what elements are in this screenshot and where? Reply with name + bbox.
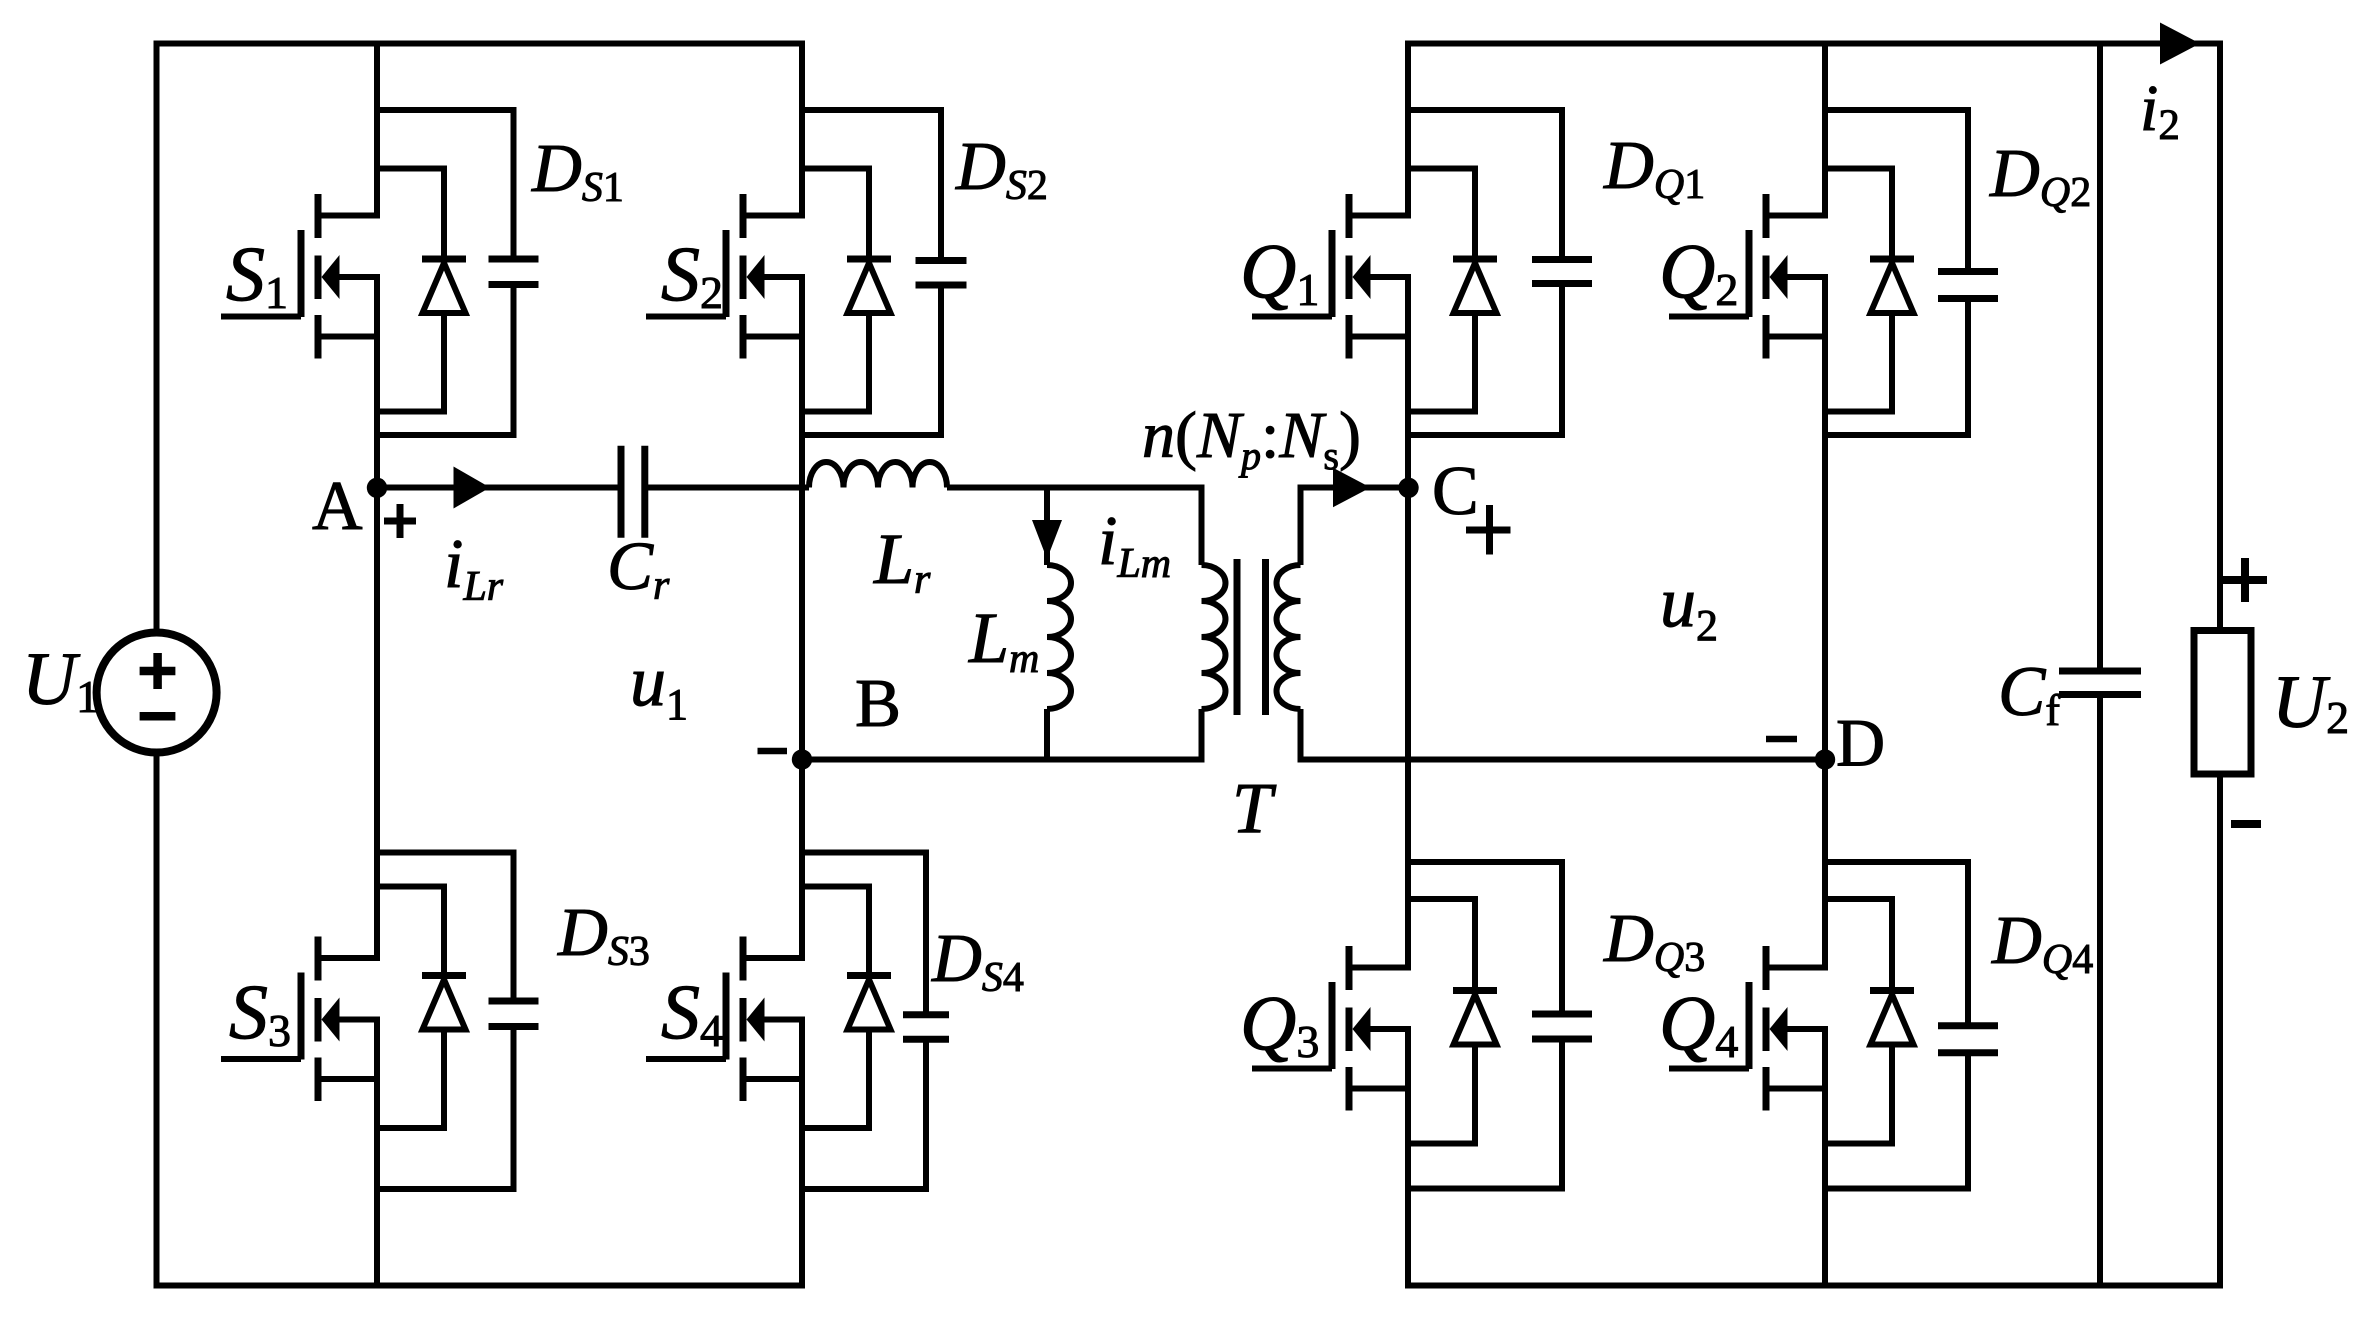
svg-text:Lr: Lr: [873, 519, 931, 603]
plus sign at node A (u1 +): [384, 504, 416, 538]
svg-text:Q4: Q4: [1659, 979, 1738, 1067]
svg-text:B: B: [855, 665, 901, 741]
node C: [1398, 478, 1418, 498]
svg-text:T: T: [1232, 768, 1277, 848]
top rail right (secondary bridge): [1405, 41, 2223, 47]
leg S1/S3 (bridge leg 1): [374, 41, 380, 216]
diode DQ4: [1822, 896, 1914, 1147]
transistor S2: [646, 194, 805, 359]
left edge wire (U1 branch): [154, 41, 160, 635]
transistor S1: [221, 194, 380, 359]
svg-text:Q1: Q1: [1240, 227, 1319, 315]
load branch U2 wire bottom: [2217, 774, 2223, 1289]
svg-text:iLm: iLm: [1098, 503, 1171, 587]
minus sign at node B (u1 -): [758, 748, 788, 755]
capacitor Cr: [621, 446, 645, 538]
transistor Q4: [1669, 946, 1828, 1111]
transistor S3: [221, 937, 380, 1102]
svg-text:DQ3: DQ3: [1603, 900, 1705, 981]
wire Cr to Lr (crosses leg 2): [648, 485, 809, 491]
svg-text:S4: S4: [661, 968, 723, 1056]
top rail left (primary bridge): [154, 41, 806, 47]
voltage source U1: [97, 633, 217, 753]
svg-text:DS3: DS3: [557, 894, 650, 975]
svg-text:u1: u1: [630, 641, 688, 729]
svg-text:DQ2: DQ2: [1989, 135, 2091, 216]
svg-text:Q3: Q3: [1240, 979, 1319, 1067]
capacitor CS1: [374, 107, 539, 438]
diode DS2: [799, 166, 891, 415]
filter capacitor Cf: [2059, 41, 2141, 1289]
transistor Q3: [1252, 946, 1411, 1111]
wire transformer secondary bottom to node D (crosses leg 3): [1298, 757, 1826, 763]
node D: [1815, 749, 1835, 769]
capacitor CQ4: [1822, 859, 1998, 1192]
wire node A to Cr: [377, 485, 618, 491]
bottom rail left (primary bridge): [154, 1283, 806, 1289]
load U2 (rectangle): [2194, 631, 2251, 775]
leg S2/S4 (bridge leg 2): [799, 41, 805, 216]
svg-text:DQ1: DQ1: [1603, 127, 1705, 208]
current arrow iLr: [454, 467, 491, 509]
inductor Lr: [809, 462, 947, 488]
svg-text:U1: U1: [22, 638, 99, 722]
diode DS1: [374, 166, 466, 415]
svg-text:Cf: Cf: [1998, 653, 2060, 735]
wire transformer secondary to node C: [1298, 485, 1409, 491]
capacitor CQ2: [1822, 107, 1998, 438]
svg-text:DS2: DS2: [955, 128, 1048, 209]
svg-text:Q2: Q2: [1659, 227, 1738, 315]
capacitor CS2: [799, 107, 967, 438]
svg-text:D: D: [1836, 705, 1885, 781]
transistor S4: [646, 937, 805, 1102]
capacitor CS3: [374, 850, 539, 1193]
svg-text:C: C: [1432, 453, 1479, 530]
wire Lr to transformer primary: [947, 485, 1205, 491]
node A: [367, 478, 387, 498]
node B: [792, 749, 812, 769]
transistor Q2: [1669, 194, 1828, 359]
leg Q2/Q4 (bridge leg 4): [1822, 41, 1828, 216]
current arrow iLm: [1032, 520, 1062, 559]
leg Q1/Q3 (bridge leg 3): [1405, 41, 1411, 216]
svg-text:S3: S3: [229, 968, 291, 1056]
diode DQ2: [1822, 166, 1914, 415]
transformer T primary winding: [1202, 488, 1226, 760]
minus sign at load U2: [2231, 820, 2261, 828]
svg-text:S2: S2: [661, 230, 723, 318]
diode DS3: [374, 884, 466, 1132]
capacitor CS4: [799, 850, 949, 1193]
svg-text:DS4: DS4: [931, 920, 1024, 1001]
svg-text:U2: U2: [2272, 661, 2349, 744]
current arrow i2 on top rail: [2160, 23, 2200, 65]
capacitor CQ1: [1405, 107, 1592, 438]
svg-text:n(Np:Ns): n(Np:Ns): [1142, 399, 1361, 478]
svg-text:u2: u2: [1660, 562, 1718, 650]
inductor Lm (magnetizing): [1047, 488, 1071, 760]
diode DS4: [799, 884, 891, 1132]
plus sign at load U2: [2223, 558, 2267, 602]
svg-text:DS1: DS1: [531, 130, 624, 211]
minus sign at node D (u2 -): [1766, 736, 1797, 743]
wire node B to transformer primary bottom: [802, 757, 1205, 763]
load branch U2 wire top: [2217, 41, 2223, 631]
transistor Q1: [1252, 194, 1411, 359]
svg-text:S1: S1: [226, 230, 288, 318]
svg-text:A: A: [312, 468, 363, 545]
svg-text:Cr: Cr: [607, 528, 670, 609]
diode DQ1: [1405, 166, 1497, 415]
svg-text:Lm: Lm: [968, 598, 1039, 682]
svg-text:i2: i2: [2140, 72, 2180, 149]
svg-text:iLr: iLr: [444, 526, 504, 610]
capacitor CQ3: [1405, 859, 1592, 1192]
transformer T core: [1237, 559, 1266, 715]
bottom rail right (secondary bridge): [1405, 1283, 2223, 1289]
plus sign at node C (u2 +): [1466, 505, 1511, 555]
current arrow into node C: [1333, 468, 1371, 507]
diode DQ3: [1405, 896, 1497, 1147]
svg-text:DQ4: DQ4: [1991, 902, 2093, 983]
transformer T secondary winding: [1277, 488, 1301, 760]
